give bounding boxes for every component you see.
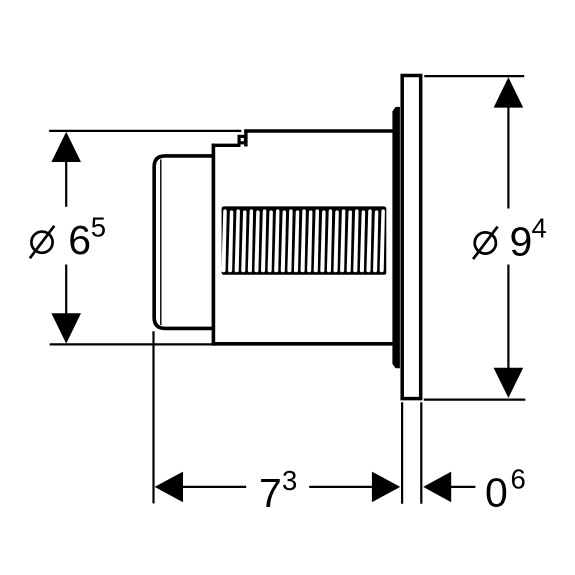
- extension line bottom of diameter 94: [424, 399, 526, 401]
- dimension line 73 right segment: [309, 486, 372, 488]
- arrowhead down diameter 65: [51, 313, 81, 343]
- svg-text:5: 5: [91, 212, 106, 243]
- dimension tail line 06: [451, 486, 475, 488]
- arrowhead right 73: [372, 472, 400, 503]
- arrowhead up diameter 94: [494, 77, 524, 107]
- body step vertical line: [212, 145, 216, 343]
- svg-text:4: 4: [532, 213, 547, 244]
- extension line flange right for 06: [420, 402, 422, 503]
- svg-text:6: 6: [511, 463, 526, 494]
- extension line bottom of diameter 65: [50, 343, 215, 345]
- clip tab square: [239, 136, 245, 142]
- svg-text:0: 0: [485, 469, 508, 515]
- svg-text:7: 7: [259, 470, 282, 516]
- svg-text:9: 9: [510, 219, 533, 265]
- thread slots: [221, 209, 226, 272]
- push button face inner edge: [160, 160, 162, 326]
- arrowhead down diameter 94: [494, 368, 524, 398]
- dimension line diameter 94 lower segment: [507, 265, 509, 370]
- dimension line diameter 94 upper segment: [507, 106, 509, 209]
- collar top line: [244, 129, 394, 133]
- extension line top of diameter 94: [424, 75, 524, 77]
- extension line left of length 73: [152, 331, 154, 503]
- extension line flange left for 73 and 06: [401, 402, 403, 503]
- arrowhead up diameter 65: [51, 132, 81, 162]
- gasket seal band: [392, 107, 400, 368]
- mounting flange plate: [402, 76, 421, 399]
- svg-text:6: 6: [68, 217, 91, 263]
- dimension line diameter 65 lower segment: [65, 265, 67, 316]
- collar bottom line: [212, 342, 394, 346]
- thread band: [222, 206, 387, 274]
- push button cap outline: [154, 156, 213, 328]
- svg-text:3: 3: [282, 465, 297, 496]
- extension line top of diameter 65: [49, 130, 241, 132]
- collar left step vertical: [244, 131, 247, 147]
- dimension line 73 left segment: [183, 486, 246, 488]
- diameter symbol of label 65: [31, 232, 52, 253]
- dimension line diameter 65 upper segment: [65, 160, 67, 207]
- diameter symbol of label 94: [475, 232, 496, 253]
- neck top line: [212, 144, 241, 147]
- arrowhead left 06: [423, 472, 451, 503]
- arrowhead left 73: [155, 472, 183, 503]
